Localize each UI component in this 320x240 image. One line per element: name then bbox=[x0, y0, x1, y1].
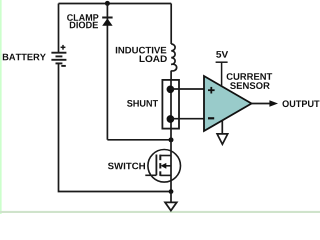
MOSFET gate lead bbox=[145, 174, 156, 176]
battery plus mark bbox=[61, 45, 66, 50]
battery minus mark bbox=[61, 65, 66, 67]
wire: top rail from battery to right branch bbox=[59, 3, 172, 5]
wire: battery bottom lead + bottom rail bbox=[59, 63, 172, 191]
node: shunt bottom sense tap bbox=[167, 115, 175, 123]
node: bottom rail junction bbox=[169, 189, 174, 194]
MOSFET body arrow bbox=[161, 163, 171, 169]
wire: vertical through shunt bbox=[170, 80, 172, 129]
wire: right branch above inductor bbox=[170, 4, 172, 45]
MOSFET drain contact bbox=[160, 155, 171, 157]
label INDUCTIVE LOAD bbox=[116, 47, 167, 54]
5V supply bar bbox=[216, 62, 228, 86]
battery BT1 bbox=[51, 53, 66, 64]
MOSFET Q1 (switch) body circle bbox=[148, 150, 181, 183]
MOSFET source contact bbox=[160, 174, 171, 176]
op-amp + input mark bbox=[208, 87, 215, 94]
label SWITCH bbox=[108, 163, 145, 170]
wire: clamp diode branch (vertical) bbox=[106, 4, 108, 140]
ground at bottom bbox=[165, 192, 177, 211]
inductor L1 (inductive load) bbox=[171, 44, 177, 71]
MOSFET channel segments bbox=[159, 155, 161, 176]
label OUTPUT bbox=[283, 100, 320, 107]
label BATTERY bbox=[3, 54, 46, 61]
wire: shunt bottom tap to op-amp - input bbox=[170, 118, 204, 120]
op-amp U1 (current sensor) bbox=[204, 76, 252, 131]
wire: battery top lead bbox=[58, 4, 60, 53]
MOSFET gate bar bbox=[155, 155, 157, 176]
shunt resistor box bbox=[162, 80, 179, 129]
bottom green page rule bbox=[0, 211, 320, 213]
node: shunt top sense tap bbox=[167, 85, 175, 93]
clamp diode D1 bbox=[102, 18, 112, 26]
node: junction below shunt bbox=[169, 137, 174, 142]
wire: diode bottom horizontal to main branch bbox=[107, 139, 171, 141]
left green page border bbox=[0, 0, 2, 214]
label SHUNT bbox=[127, 100, 158, 107]
node: top-rail / diode junction bbox=[105, 1, 110, 6]
wire: op-amp output bbox=[252, 103, 272, 105]
ground below op-amp bbox=[217, 121, 228, 145]
label 5V bbox=[216, 51, 228, 58]
label CURRENT SENSOR bbox=[227, 73, 273, 80]
output arrowhead bbox=[269, 100, 278, 107]
wire: shunt top tap to op-amp + input bbox=[170, 88, 204, 90]
wire: main branch from shunt down to MOSFET bbox=[170, 129, 172, 192]
wire: inductor to shunt bbox=[170, 71, 172, 80]
op-amp - input mark bbox=[208, 117, 214, 119]
label CLAMP DIODE bbox=[67, 14, 98, 21]
